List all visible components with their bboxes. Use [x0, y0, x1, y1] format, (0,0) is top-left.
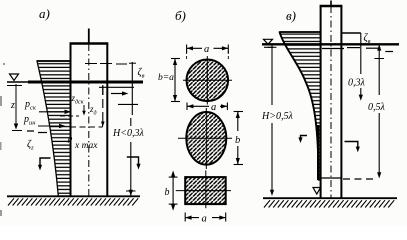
svg-text:a: a: [204, 44, 209, 55]
circular section hatched: [187, 60, 229, 102]
svg-text:а): а): [39, 6, 50, 21]
circle centerlines: [183, 56, 232, 105]
svg-text:0,5λ: 0,5λ: [368, 102, 386, 113]
pile column (fig a): [70, 44, 109, 197]
svg-text:b: b: [235, 135, 240, 146]
svg-text:a: a: [211, 102, 216, 113]
svg-text:z: z: [10, 100, 15, 111]
still water level line (fig a): [7, 82, 143, 87]
wave crest level dashes right of column (fig a): [85, 63, 127, 66]
dimension 0,5λ (fig в): [368, 44, 386, 178]
svg-text:0,3λ: 0,3λ: [348, 78, 366, 89]
bent arrow (fig a, right): [127, 157, 141, 170]
svg-text:ρ: ρ: [67, 133, 73, 143]
wave trough dashes and zeta_z: [27, 131, 47, 152]
svg-text:b: b: [165, 187, 170, 198]
svg-text:a: a: [202, 214, 207, 225]
svg-text:x max: x max: [74, 141, 98, 151]
dimension z (depth) left side: [10, 84, 22, 131]
zeta_в dimension (fig в): [361, 33, 371, 46]
svg-text:b=a: b=a: [158, 73, 174, 83]
dimension 0,3λ (fig в): [348, 44, 366, 101]
dimension a (top of ellipse): [187, 102, 227, 113]
dashed trough level inside column: [60, 115, 79, 117]
dashed level z_д bottom: [70, 122, 103, 128]
ellipse centerlines: [178, 108, 232, 169]
still water level line (fig в): [262, 44, 399, 51]
wave pressure diagram (fig a) hatched: [37, 61, 71, 196]
ground line with hatching (fig в): [263, 198, 397, 207]
dimension a (top of circle): [187, 44, 229, 60]
zeta_в dimension (fig a): [118, 62, 145, 115]
z_д dimension line dashed: [101, 85, 105, 127]
wave crest level line right of column (fig в): [342, 32, 361, 34]
dimension a (bottom of rectangle): [185, 213, 226, 225]
small arrow right of column at water: [103, 86, 129, 96]
label p_ин with arrow: [23, 114, 66, 128]
dimension b (left of rectangle): [165, 171, 178, 211]
H dimension line (fig в): [268, 44, 277, 196]
dimension b=a (left of circle): [158, 59, 180, 102]
pile column (fig в): [320, 6, 343, 198]
bent arrow (fig в, left): [298, 136, 307, 144]
wave pressure diagram (fig в) hatched: [280, 32, 321, 180]
rectangle centerlines: [176, 170, 231, 208]
elliptical section hatched: [186, 112, 226, 165]
water level symbol nabla (fig в): [264, 39, 273, 44]
rectangular section hatched: [185, 177, 226, 204]
dimension b (right of ellipse): [234, 112, 243, 165]
svg-text:H<0,3λ: H<0,3λ: [112, 128, 144, 139]
H dimension line (fig a): [126, 118, 136, 196]
water level symbol nabla (fig a): [10, 74, 19, 81]
svg-text:в): в): [286, 8, 296, 23]
column centerline (fig a): [88, 29, 90, 197]
bent arrow (fig a, left of column): [38, 158, 51, 171]
bent arrow (fig в, right): [345, 142, 360, 153]
column centerline (fig в): [330, 1, 332, 199]
label p_ск with arrow: [24, 99, 71, 114]
bottom marker nabla (fig в): [313, 188, 321, 195]
level line at 0.5λ depth: [322, 178, 377, 179]
small arrow under z_дск: [82, 105, 86, 116]
svg-text:H>0,5λ: H>0,5λ: [261, 111, 293, 122]
svg-text:б): б): [175, 8, 186, 23]
scan smudges at left edge: [0, 63, 5, 216]
ground line with hatching (fig a): [7, 196, 140, 205]
